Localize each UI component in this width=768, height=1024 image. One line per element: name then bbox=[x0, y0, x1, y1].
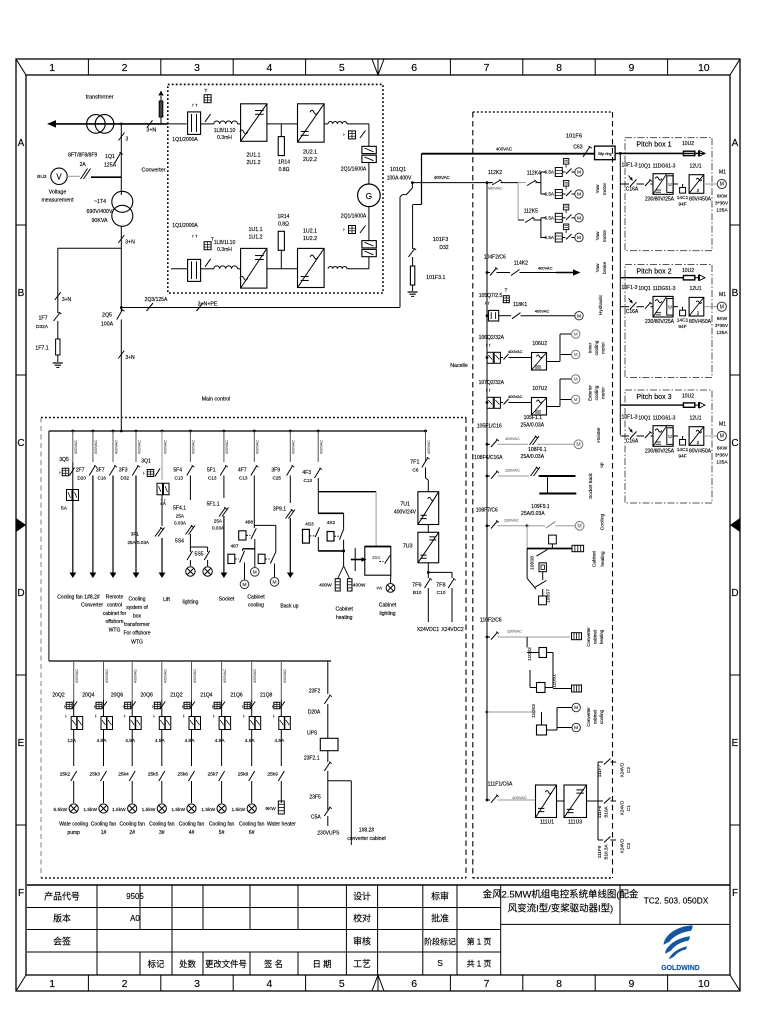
svg-text:X24VD: X24VD bbox=[620, 838, 625, 853]
svg-text:4S2: 4S2 bbox=[327, 520, 336, 526]
svg-text:111F6: 111F6 bbox=[597, 805, 602, 818]
wire bottom bus start bbox=[171, 268, 188, 270]
svg-text:12U1: 12U1 bbox=[689, 164, 701, 170]
svg-text:12U1: 12U1 bbox=[689, 286, 701, 292]
svg-text:3+N: 3+N bbox=[125, 239, 135, 245]
contactor right sub bbox=[275, 525, 277, 551]
svg-text:B16.3A: B16.3A bbox=[604, 844, 609, 860]
svg-text:BU3: BU3 bbox=[37, 174, 47, 180]
heater 400W right bbox=[347, 579, 352, 591]
svg-text:1U1.2: 1U1.2 bbox=[248, 235, 262, 241]
wire branch drop x=318.2 bbox=[317, 430, 320, 433]
svg-text:Cooling fan: Cooling fan bbox=[119, 822, 145, 828]
svg-text:5F1.1: 5F1.1 bbox=[207, 501, 220, 507]
svg-text:5A: 5A bbox=[61, 506, 68, 512]
svg-text:400VAC: 400VAC bbox=[426, 440, 431, 454]
svg-text:T: T bbox=[211, 237, 214, 243]
svg-text:1#8.2#: 1#8.2# bbox=[359, 827, 375, 833]
svg-text:C10: C10 bbox=[437, 590, 446, 596]
svg-text:4.5A: 4.5A bbox=[215, 738, 226, 744]
node junction at 1T4 feed bbox=[120, 123, 123, 126]
breaker 1Q1/2000A top bbox=[188, 112, 201, 134]
svg-text:107U2: 107U2 bbox=[532, 386, 547, 392]
svg-text:B: B bbox=[732, 288, 739, 299]
svg-text:110S3: 110S3 bbox=[531, 704, 537, 718]
motor 488 bbox=[251, 568, 260, 577]
svg-text:Socket Back: Socket Back bbox=[588, 472, 593, 498]
svg-text:motor: motor bbox=[602, 182, 608, 195]
svg-text:3*36V: 3*36V bbox=[715, 201, 729, 207]
svg-text:Cabinet: Cabinet bbox=[592, 550, 597, 567]
svg-text:A: A bbox=[732, 138, 739, 149]
svg-text:1.5kW: 1.5kW bbox=[142, 807, 156, 813]
svg-text:2A: 2A bbox=[80, 162, 87, 168]
svg-text:400VAC: 400VAC bbox=[434, 175, 451, 180]
svg-text:400VAC: 400VAC bbox=[512, 795, 527, 800]
svg-text:C2: C2 bbox=[626, 767, 631, 773]
nacelle distribution bus bbox=[486, 183, 488, 800]
svg-text:Cooling fan: Cooling fan bbox=[239, 822, 265, 828]
heater bottom 110 branch bbox=[572, 685, 582, 692]
svg-text:⊦: ⊦ bbox=[273, 715, 275, 719]
dc converter 7U3 bbox=[418, 532, 439, 563]
svg-text:10: 10 bbox=[698, 978, 710, 990]
svg-text:4.5A: 4.5A bbox=[97, 738, 108, 744]
wire below 1T4 bbox=[120, 226, 122, 307]
svg-text:Cooling: Cooling bbox=[600, 513, 606, 530]
svg-text:105Q7/2.5: 105Q7/2.5 bbox=[479, 293, 503, 299]
yaw brake arrow bbox=[556, 272, 574, 274]
svg-text:6.5A: 6.5A bbox=[545, 215, 555, 220]
svg-text:111U1: 111U1 bbox=[540, 820, 554, 826]
svg-text:GOLDWIND: GOLDWIND bbox=[661, 965, 699, 972]
svg-text:230/80V/25A: 230/80V/25A bbox=[645, 319, 675, 325]
svg-text:transformer: transformer bbox=[124, 622, 150, 628]
svg-text:⊦: ⊦ bbox=[65, 715, 67, 719]
1F7 drop wire bbox=[57, 248, 59, 310]
svg-text:M: M bbox=[577, 192, 581, 198]
centering marks bbox=[372, 59, 384, 75]
svg-text:3+N: 3+N bbox=[62, 297, 72, 303]
svg-text:108F6.1: 108F6.1 bbox=[528, 447, 547, 453]
svg-text:Hoister: Hoister bbox=[596, 427, 602, 443]
svg-text:400VAC: 400VAC bbox=[136, 440, 141, 454]
heating feed split bbox=[318, 491, 376, 493]
svg-text:⊦: ⊦ bbox=[243, 715, 245, 719]
lighting split 5S4 5S5 bbox=[190, 546, 207, 548]
svg-text:6.5A: 6.5A bbox=[545, 235, 555, 240]
line B 400VAC to nacelle bbox=[412, 182, 493, 184]
svg-text:2U2.2: 2U2.2 bbox=[303, 157, 317, 163]
feed junction into bus1 bbox=[120, 430, 123, 433]
svg-text:0.03A: 0.03A bbox=[174, 521, 187, 526]
wire 1T4 drop bbox=[120, 124, 122, 195]
svg-text:M: M bbox=[577, 524, 581, 530]
svg-text:E: E bbox=[18, 738, 25, 749]
pitch box 1 bbox=[625, 138, 712, 251]
svg-text:版本: 版本 bbox=[53, 913, 71, 924]
svg-text:motor: motor bbox=[601, 342, 606, 354]
svg-text:400VAC: 400VAC bbox=[162, 440, 167, 454]
fuse 101F3.1 bbox=[410, 266, 414, 285]
row letter strips bbox=[16, 224, 26, 226]
switch to cooling motor bbox=[527, 525, 545, 527]
svg-text:110F2/C6: 110F2/C6 bbox=[480, 618, 502, 624]
fan lamp 20Q6 bbox=[128, 804, 137, 813]
svg-text:3F3: 3F3 bbox=[119, 468, 128, 474]
svg-text:25A/0.03A: 25A/0.03A bbox=[127, 540, 149, 545]
svg-text:101Q1: 101Q1 bbox=[390, 167, 406, 173]
svg-text:4W: 4W bbox=[376, 586, 382, 591]
wire 7U1 to 7U3 bbox=[427, 525, 429, 533]
svg-text:400VAC: 400VAC bbox=[255, 440, 260, 454]
svg-text:1F7.1: 1F7.1 bbox=[35, 346, 49, 352]
heater rail bottom bbox=[318, 550, 343, 552]
svg-text:109F9.1: 109F9.1 bbox=[531, 504, 550, 510]
svg-text:400V/24V: 400V/24V bbox=[394, 510, 417, 516]
bus2 branch 20Q6 bbox=[131, 661, 133, 700]
svg-text:г т: г т bbox=[192, 104, 198, 109]
svg-text:г г: г г bbox=[486, 343, 491, 348]
svg-text:4: 4 bbox=[266, 62, 272, 74]
svg-text:2: 2 bbox=[122, 978, 128, 990]
svg-text:批准: 批准 bbox=[431, 913, 449, 924]
svg-text:2Q5: 2Q5 bbox=[102, 313, 112, 319]
svg-text:0.8Ω: 0.8Ω bbox=[278, 222, 289, 228]
svg-text:7F8: 7F8 bbox=[436, 583, 445, 589]
svg-text:9505: 9505 bbox=[126, 892, 144, 901]
svg-text:Exterior: Exterior bbox=[588, 385, 593, 401]
svg-text:Cooling fan: Cooling fan bbox=[149, 822, 175, 828]
svg-text:C63: C63 bbox=[573, 145, 582, 151]
fan lamp 20Q8 bbox=[157, 804, 166, 813]
svg-text:Cooling fan: Cooling fan bbox=[57, 594, 83, 600]
svg-text:106Q2/32A: 106Q2/32A bbox=[479, 335, 505, 341]
yaw bracket 1 bbox=[540, 172, 542, 194]
svg-text:5S5: 5S5 bbox=[195, 552, 204, 558]
svg-text:D32: D32 bbox=[439, 245, 448, 251]
svg-text:6#: 6# bbox=[249, 830, 255, 836]
svg-text:M: M bbox=[253, 569, 257, 575]
svg-text:6: 6 bbox=[411, 978, 417, 990]
svg-text:⊦: ⊦ bbox=[95, 715, 97, 719]
svg-text:M: M bbox=[242, 582, 246, 588]
svg-text:X24VD: X24VD bbox=[620, 762, 625, 777]
hoister branch 105F1/C16 bbox=[486, 443, 489, 446]
svg-text:更改文件号: 更改文件号 bbox=[205, 959, 247, 969]
cabinet lighting 4S4 bbox=[375, 492, 377, 547]
svg-text:108S8: 108S8 bbox=[530, 556, 536, 570]
svg-text:M: M bbox=[720, 304, 724, 310]
svg-text:25A/0.03A: 25A/0.03A bbox=[521, 454, 545, 460]
svg-text:1#: 1# bbox=[101, 830, 107, 836]
svg-text:400VAC: 400VAC bbox=[535, 309, 550, 314]
svg-text:2U1.2: 2U1.2 bbox=[246, 160, 260, 166]
svg-text:6: 6 bbox=[411, 62, 417, 74]
svg-text:标记: 标记 bbox=[148, 959, 165, 969]
main control dashed enclosure bbox=[41, 417, 466, 419]
svg-text:2F7: 2F7 bbox=[76, 468, 85, 474]
bus1 left drop to bus2 bbox=[48, 431, 50, 661]
svg-text:brake: brake bbox=[602, 262, 608, 274]
wire branch drop x=290.3 bbox=[289, 430, 292, 433]
surge arrester on bus bbox=[160, 96, 162, 124]
svg-text:1Q1/2000A: 1Q1/2000A bbox=[172, 137, 198, 143]
svg-text:M: M bbox=[577, 170, 581, 176]
wire branch drop x=223.9 bbox=[223, 430, 226, 433]
svg-text:⊦: ⊦ bbox=[343, 227, 345, 232]
svg-text:cooling: cooling bbox=[599, 709, 604, 724]
svg-text:M1: M1 bbox=[719, 170, 726, 176]
bus2 branch 20Q8 bbox=[161, 661, 163, 700]
svg-text:400W: 400W bbox=[319, 583, 332, 589]
svg-text:Hydraulic: Hydraulic bbox=[598, 294, 604, 315]
svg-text:400VAC: 400VAC bbox=[74, 669, 79, 683]
slip ring box bbox=[595, 146, 616, 160]
svg-text:D20: D20 bbox=[77, 476, 86, 481]
svg-text:1.5kW: 1.5kW bbox=[171, 807, 185, 813]
cooling motor bbox=[575, 521, 584, 530]
svg-text:108S7: 108S7 bbox=[546, 589, 552, 603]
aux transformer 1T4 bbox=[112, 191, 133, 212]
svg-text:Pitch box 1: Pitch box 1 bbox=[636, 141, 671, 149]
nacelle dashed enclosure bbox=[473, 111, 613, 113]
ground symbol 1F7 bbox=[53, 362, 63, 364]
svg-text:23F2: 23F2 bbox=[309, 688, 321, 694]
pitch box 3 bbox=[625, 390, 712, 503]
svg-text:Remote: Remote bbox=[106, 594, 124, 600]
fan lamp 21Q2 bbox=[187, 804, 196, 813]
bus2 branch 21Q6 bbox=[251, 661, 253, 700]
water heater element bbox=[278, 801, 284, 814]
svg-text:400VAC: 400VAC bbox=[104, 669, 109, 683]
3+N slash on HV bus bbox=[147, 120, 153, 127]
converter module 2U1 bbox=[241, 104, 267, 142]
svg-text:会签: 会签 bbox=[53, 935, 71, 946]
svg-text:6KW: 6KW bbox=[717, 316, 728, 322]
svg-text:94F: 94F bbox=[678, 454, 686, 460]
svg-text:400VAC: 400VAC bbox=[319, 440, 324, 454]
svg-text:C3: C3 bbox=[626, 843, 631, 849]
svg-text:3: 3 bbox=[194, 978, 200, 990]
fan lamp 21Q6 bbox=[247, 804, 256, 813]
svg-text:heating: heating bbox=[599, 629, 604, 644]
svg-text:C13: C13 bbox=[175, 476, 184, 481]
lighting lamps bbox=[186, 567, 195, 576]
svg-text:阶段标记: 阶段标记 bbox=[424, 936, 456, 946]
svg-text:4S3: 4S3 bbox=[305, 522, 314, 528]
inner cooling branch 106Q2/32A bbox=[486, 356, 489, 359]
svg-text:21Q2: 21Q2 bbox=[170, 692, 183, 698]
svg-text:112K5: 112K5 bbox=[524, 209, 538, 215]
svg-text:80V/450A: 80V/450A bbox=[689, 197, 712, 203]
link bar y248 bbox=[58, 247, 122, 249]
wire slip ring to pitch bus bbox=[615, 152, 705, 154]
svg-text:23F2.1: 23F2.1 bbox=[304, 755, 320, 761]
svg-text:6.5A: 6.5A bbox=[545, 192, 555, 197]
svg-text:1Q1/2000A: 1Q1/2000A bbox=[172, 223, 198, 229]
svg-text:1R14: 1R14 bbox=[277, 214, 289, 220]
yaw brake branch 104F2/C6 bbox=[486, 271, 489, 274]
svg-text:C: C bbox=[731, 438, 738, 449]
bus2 branch 21Q4 bbox=[221, 661, 223, 700]
svg-text:Main control: Main control bbox=[202, 397, 231, 403]
svg-text:400VAC: 400VAC bbox=[73, 440, 78, 454]
svg-text:101F6: 101F6 bbox=[566, 134, 582, 140]
svg-text:400VAC: 400VAC bbox=[113, 440, 118, 454]
breaker 1Q1/2000A bottom bbox=[188, 259, 201, 281]
svg-text:5: 5 bbox=[339, 62, 345, 74]
svg-text:400VAC: 400VAC bbox=[496, 147, 513, 152]
converter module 1U1 bbox=[241, 248, 267, 288]
hoister motor bbox=[574, 440, 583, 449]
svg-text:Wate cooling: Wate cooling bbox=[59, 822, 88, 828]
svg-text:12U1: 12U1 bbox=[689, 416, 701, 422]
UPS box bbox=[320, 738, 338, 750]
svg-text:TC2. 503. 050DX: TC2. 503. 050DX bbox=[644, 896, 709, 906]
heater top 110 branch bbox=[572, 633, 582, 640]
converter module 1U2 bbox=[298, 248, 325, 287]
inductor 1LB/1L10 bottom bbox=[214, 266, 238, 269]
svg-text:金风2.5MW机组电控系统单线图(配金: 金风2.5MW机组电控系统单线图(配金 bbox=[483, 889, 639, 901]
svg-text:8: 8 bbox=[556, 978, 562, 990]
svg-text:8FT/8F8/8F9: 8FT/8F8/8F9 bbox=[68, 153, 97, 159]
svg-text:Pitch box 2: Pitch box 2 bbox=[636, 268, 671, 276]
svg-text:UPS: UPS bbox=[307, 730, 318, 736]
generator G bbox=[368, 163, 370, 185]
svg-text:~1T4: ~1T4 bbox=[94, 199, 106, 205]
svg-text:Converter: Converter bbox=[81, 602, 103, 608]
svg-text:25k2: 25k2 bbox=[60, 772, 71, 778]
wire branch drop x=92.9 bbox=[92, 430, 95, 433]
hydraulic motor bbox=[575, 312, 583, 320]
svg-text:签 名: 签 名 bbox=[264, 959, 283, 969]
svg-text:г г: г г bbox=[485, 301, 490, 306]
svg-text:1#8.2#: 1#8.2# bbox=[84, 594, 100, 600]
svg-text:6KW: 6KW bbox=[265, 806, 276, 812]
socket branch 108F6/C16A bbox=[486, 475, 489, 478]
svg-text:B: B bbox=[18, 288, 25, 299]
svg-text:Cooling fan: Cooling fan bbox=[209, 822, 235, 828]
svg-text:2: 2 bbox=[122, 62, 128, 74]
svg-text:20Q6: 20Q6 bbox=[111, 692, 124, 698]
svg-text:7U1: 7U1 bbox=[400, 502, 410, 508]
svg-text:3F1: 3F1 bbox=[131, 532, 140, 538]
svg-text:400VAC: 400VAC bbox=[252, 669, 257, 683]
bus2 branch 21Q8 bbox=[280, 661, 282, 700]
line A riser bbox=[421, 154, 423, 205]
feed 112K5 bbox=[517, 183, 519, 220]
svg-text:审核: 审核 bbox=[353, 935, 371, 946]
svg-text:WTG: WTG bbox=[131, 639, 143, 645]
svg-text:3#: 3# bbox=[159, 830, 165, 836]
svg-text:C13: C13 bbox=[304, 478, 313, 483]
svg-text:M: M bbox=[720, 434, 724, 440]
svg-text:10: 10 bbox=[698, 62, 710, 74]
heater contactor rail top bbox=[318, 512, 343, 514]
svg-text:3F7: 3F7 bbox=[96, 468, 105, 474]
svg-text:80V/450A: 80V/450A bbox=[689, 449, 712, 455]
fan lamp 21Q4 bbox=[217, 804, 226, 813]
svg-text:25A: 25A bbox=[214, 518, 223, 523]
svg-text:工艺: 工艺 bbox=[353, 959, 371, 969]
svg-text:2Q1/1600A: 2Q1/1600A bbox=[341, 167, 367, 173]
svg-text:measurement: measurement bbox=[41, 198, 74, 204]
svg-text:0.3mH: 0.3mH bbox=[217, 135, 232, 141]
svg-text:T: T bbox=[505, 288, 508, 293]
svg-text:Converter: Converter bbox=[586, 707, 591, 727]
svg-text:25k4: 25k4 bbox=[118, 772, 129, 778]
svg-text:5S4: 5S4 bbox=[175, 539, 184, 545]
svg-text:230VUPS: 230VUPS bbox=[317, 831, 340, 837]
svg-text:G: G bbox=[366, 191, 373, 201]
svg-text:11DG61-3: 11DG61-3 bbox=[653, 286, 676, 292]
svg-text:0.8Ω: 0.8Ω bbox=[279, 167, 290, 173]
svg-text:400VAC: 400VAC bbox=[133, 669, 138, 683]
svg-text:1: 1 bbox=[49, 62, 55, 74]
svg-text:7: 7 bbox=[484, 978, 490, 990]
contactor 2Q1/1600A top bbox=[362, 146, 376, 153]
svg-text:C5A: C5A bbox=[311, 814, 321, 820]
svg-text:C13: C13 bbox=[239, 476, 248, 481]
svg-text:3P9.1: 3P9.1 bbox=[273, 506, 286, 512]
svg-text:100A: 100A bbox=[101, 322, 114, 328]
svg-text:C: C bbox=[17, 438, 24, 449]
wire 101Q1 to 400VAC line B bbox=[411, 183, 413, 188]
svg-text:V: V bbox=[56, 173, 62, 182]
svg-text:110S1: 110S1 bbox=[552, 674, 558, 688]
resistor 1R14 top bbox=[280, 124, 282, 137]
svg-text:1R14: 1R14 bbox=[278, 159, 290, 165]
svg-text:Yaw: Yaw bbox=[595, 231, 601, 241]
motor right sub bbox=[270, 578, 279, 587]
svg-text:cooling: cooling bbox=[594, 340, 599, 355]
bus2 branch 20Q4 bbox=[103, 661, 105, 700]
svg-text:C16: C16 bbox=[98, 476, 107, 481]
UPS branch 23F2 bbox=[327, 661, 329, 694]
svg-text:1Q1: 1Q1 bbox=[105, 154, 115, 160]
svg-text:Slip ring: Slip ring bbox=[598, 152, 612, 156]
contactor 110S2 bbox=[526, 637, 528, 648]
svg-text:94F: 94F bbox=[678, 202, 686, 208]
svg-text:7: 7 bbox=[484, 62, 490, 74]
svg-text:Back up: Back up bbox=[280, 603, 298, 609]
wire branch drop x=136 bbox=[135, 430, 138, 433]
contactor 2Q1/1600A bottom bbox=[362, 241, 376, 248]
svg-text:lighting: lighting bbox=[380, 611, 396, 617]
svg-text:风变流I型/变桨驱动器I型): 风变流I型/变桨驱动器I型) bbox=[508, 903, 613, 915]
svg-text:M: M bbox=[577, 313, 581, 319]
svg-text:M: M bbox=[272, 579, 276, 585]
bus2 branch 21Q2 bbox=[191, 661, 193, 700]
svg-text:400VAC: 400VAC bbox=[291, 440, 296, 454]
svg-text:X24VDC2: X24VDC2 bbox=[441, 627, 464, 633]
svg-text:25k6: 25k6 bbox=[178, 772, 189, 778]
svg-text:4F7: 4F7 bbox=[238, 468, 247, 474]
slash 3 on drop bbox=[119, 133, 125, 141]
svg-text:M: M bbox=[574, 725, 578, 731]
line A 400VAC to slip ring bbox=[422, 153, 595, 155]
svg-text:E: E bbox=[732, 738, 739, 749]
svg-text:14C1: 14C1 bbox=[677, 447, 689, 453]
svg-text:14C1: 14C1 bbox=[677, 318, 689, 324]
svg-text:400VAC: 400VAC bbox=[508, 394, 523, 399]
svg-text:104F2/C6: 104F2/C6 bbox=[484, 254, 506, 260]
svg-text:10F1-3: 10F1-3 bbox=[622, 285, 638, 291]
svg-text:cabinet: cabinet bbox=[593, 709, 598, 724]
svg-text:C16A: C16A bbox=[626, 439, 639, 445]
svg-text:5F4: 5F4 bbox=[173, 468, 182, 474]
